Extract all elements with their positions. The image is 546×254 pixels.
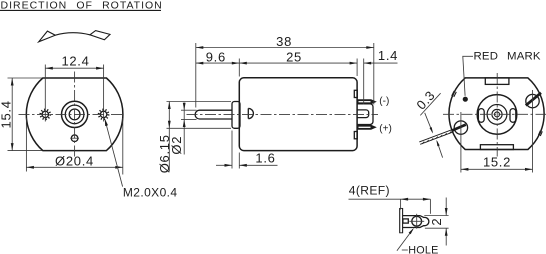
dim Ø20.4 [26,118,122,175]
shaft [195,110,232,119]
dim 9.6 [196,50,240,77]
endbell wall [400,208,403,233]
svg-text:4(REF): 4(REF) [349,183,390,197]
brush housing inner [358,110,369,118]
dim 1.6 [216,131,278,169]
terminal hole [412,216,422,226]
terminal crimp slot [403,219,408,223]
svg-text:Ø2: Ø2 [169,136,184,155]
back view outline [449,78,544,150]
terminal hole centerlines [409,220,424,222]
dim 4(REF) [349,183,431,214]
back right vent slot [510,109,516,123]
dim 15.2 [461,90,533,173]
back right screw hole [526,94,539,107]
svg-text:15.2: 15.2 [483,155,511,170]
motor body [239,78,357,151]
dim 38 [196,34,374,107]
dim 1.4 [364,48,398,105]
svg-text:HOLE: HOLE [408,245,438,254]
svg-text:(+): (+) [379,123,392,134]
dim Ø2 [169,103,196,155]
back center circles [477,95,517,135]
svg-text:15.4: 15.4 [0,100,14,128]
dim 15.4 [0,78,42,151]
svg-text:25: 25 [286,50,302,65]
svg-text:1.4: 1.4 [378,48,398,63]
front center boss circles [62,101,88,127]
svg-text:(-): (-) [379,96,389,107]
svg-text:9.6: 9.6 [206,50,226,65]
leader M2.0X0.4 [105,118,178,199]
dim 2 [424,198,448,246]
terminal minus [358,100,376,104]
back left screw slot with hatching [419,125,466,145]
red mark dot [463,97,468,102]
front horizontal centerline [19,113,124,115]
svg-text:38: 38 [276,34,292,49]
svg-text:RED MARK: RED MARK [474,51,541,63]
crimp tab top [354,90,357,97]
shaft boss bushing [232,102,240,129]
svg-text:1.6: 1.6 [255,150,275,165]
svg-text:Ø20.4: Ø20.4 [55,154,94,169]
dim 0.3 [413,88,442,158]
svg-text:M2.0X0.4: M2.0X0.4 [123,185,178,199]
back bottom tab [480,145,513,150]
back outline notch lower-right [538,131,542,136]
dim 12.4 [45,53,103,121]
red mark leader [463,56,473,96]
front view outline [26,78,123,151]
crimp tab bottom [354,132,357,139]
terminal plus [358,125,376,129]
label HOLE with leader [397,228,439,254]
title DIRECTION OF ROTATION [0,0,163,12]
terminal tab outline [403,216,429,228]
oil mark [248,108,253,118]
brush housing [358,104,374,125]
dim Ø6.15 [157,102,231,174]
front right mounting hole M2 [99,110,109,120]
dim 25 [239,50,357,76]
side view centerline [187,114,379,116]
back left screw hole [454,121,467,134]
back left vent slot [478,109,484,123]
front vertical centerline [74,72,76,158]
back right screw slot [526,93,541,106]
back outline notch upper-left [452,91,457,97]
rotation direction symbol [39,31,110,42]
svg-text:2: 2 [429,218,444,226]
back top notch [485,78,509,85]
front small hole below center [71,135,78,142]
back horizontal centerline [443,113,546,115]
svg-text:12.4: 12.4 [61,53,89,68]
back vertical centerline [496,73,498,157]
front left mounting hole M2 [40,110,50,120]
